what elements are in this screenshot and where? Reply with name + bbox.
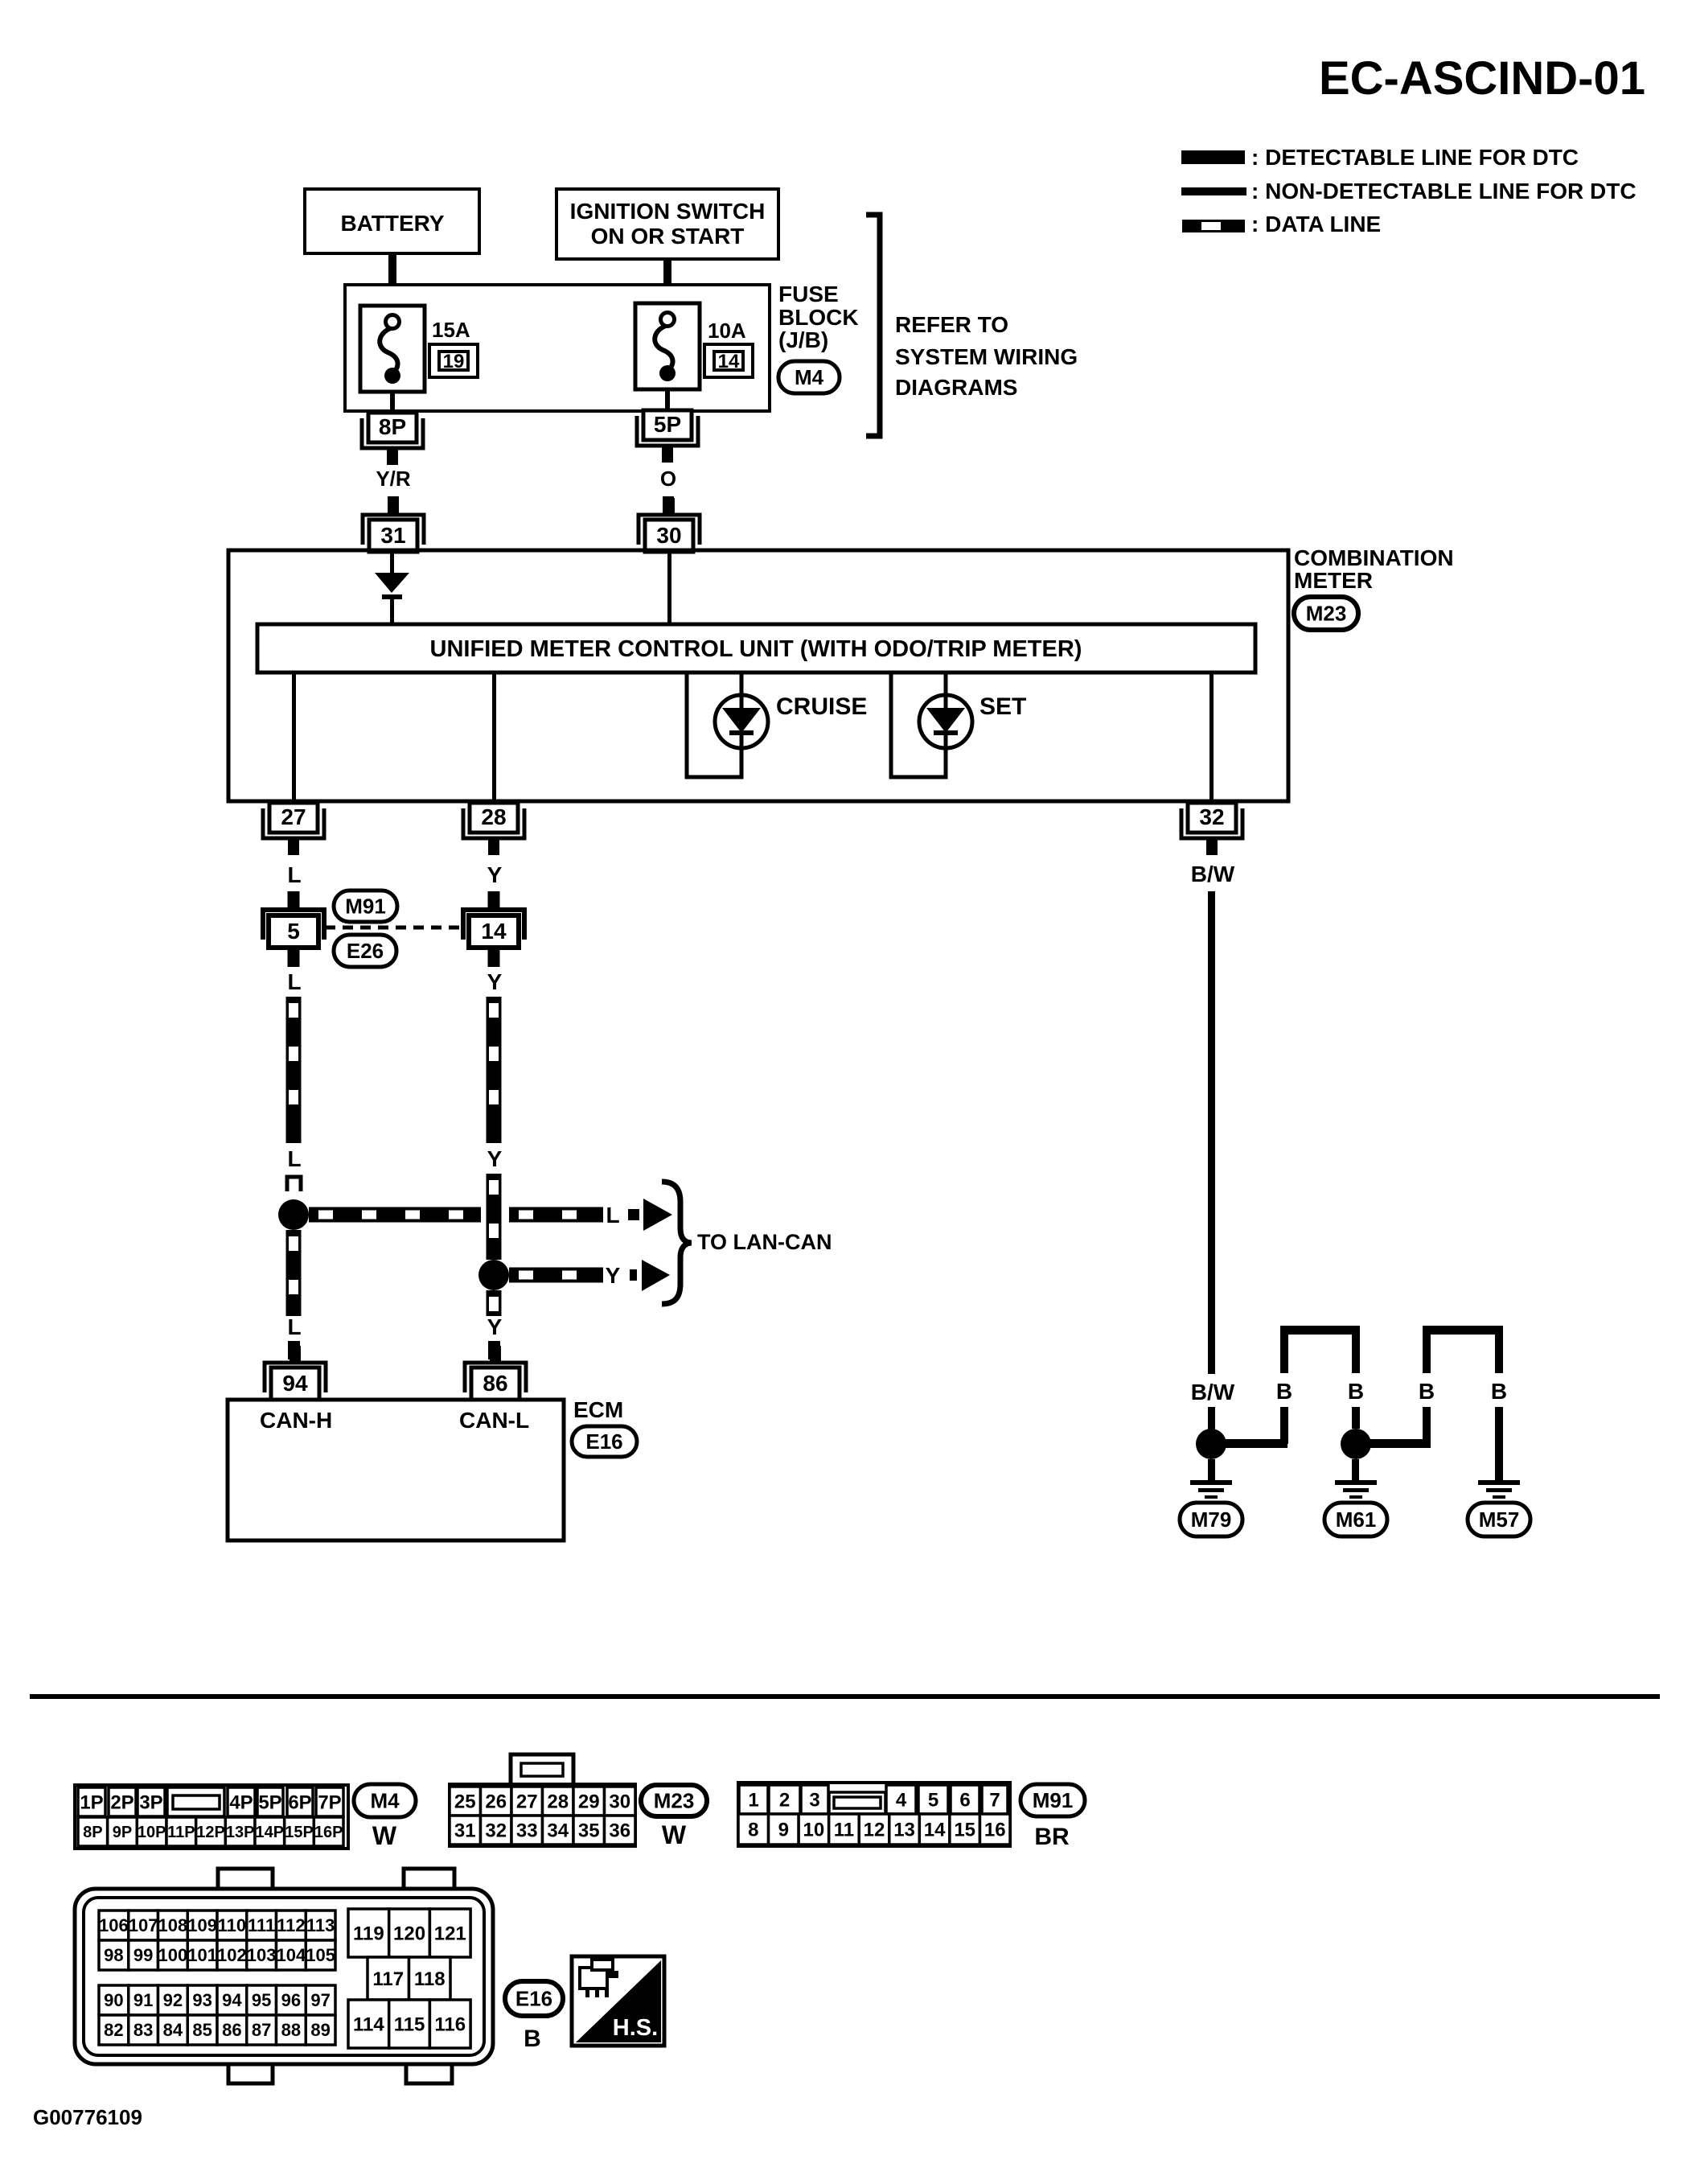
- svg-text:8P: 8P: [83, 1824, 102, 1841]
- svg-text:: NON-DETECTABLE LINE FOR DTC: : NON-DETECTABLE LINE FOR DTC: [1251, 179, 1637, 204]
- unified meter control unit box: [257, 624, 1255, 672]
- svg-text:W: W: [662, 1820, 687, 1849]
- svg-text:SYSTEM WIRING: SYSTEM WIRING: [895, 344, 1078, 369]
- svg-text:B: B: [524, 2026, 541, 2052]
- svg-text:CAN-H: CAN-H: [260, 1408, 332, 1433]
- junction node M61: [1341, 1429, 1371, 1459]
- data line Y to LAN-CAN: [509, 1268, 603, 1283]
- svg-text:BLOCK: BLOCK: [778, 305, 859, 330]
- svg-text:33: 33: [516, 1820, 538, 1841]
- svg-text:91: 91: [133, 1990, 153, 2010]
- svg-text:COMBINATION: COMBINATION: [1294, 545, 1454, 570]
- svg-text:115: 115: [394, 2013, 425, 2035]
- svg-text:2P: 2P: [110, 1791, 133, 1813]
- legend non-detectable line symbol: [1181, 187, 1246, 195]
- svg-text:Y: Y: [487, 1314, 503, 1339]
- svg-text:FUSE: FUSE: [778, 282, 839, 306]
- data line Y lower: [487, 1290, 502, 1316]
- connector oval E26: [334, 935, 396, 967]
- combination meter box: [228, 550, 1288, 801]
- svg-text:104: 104: [277, 1945, 306, 1965]
- svg-text:86: 86: [222, 2020, 241, 2040]
- LED SET: [919, 695, 972, 748]
- svg-text:101: 101: [187, 1945, 217, 1965]
- wire junction M61 to jumper: [1356, 1439, 1431, 1448]
- svg-text:92: 92: [163, 1990, 183, 2010]
- svg-text:105: 105: [306, 1945, 335, 1965]
- wire 5P to pin 30: [663, 496, 674, 513]
- svg-text:120: 120: [393, 1923, 425, 1944]
- svg-text:26: 26: [485, 1791, 507, 1812]
- svg-text:B/W: B/W: [1191, 1380, 1235, 1405]
- svg-text:UNIFIED METER CONTROL UNIT (WI: UNIFIED METER CONTROL UNIT (WITH ODO/TRI…: [430, 636, 1082, 662]
- svg-text:16: 16: [984, 1819, 1006, 1841]
- ground oval M79: [1180, 1503, 1242, 1536]
- connector oval M23 meter: [1294, 597, 1358, 630]
- svg-text:CRUISE: CRUISE: [776, 693, 867, 720]
- connector oval M23 view: [641, 1785, 707, 1816]
- svg-text:TO LAN-CAN: TO LAN-CAN: [697, 1230, 832, 1254]
- svg-text:15P: 15P: [285, 1824, 314, 1841]
- pin 27: [263, 808, 324, 838]
- data line L lower: [286, 1230, 302, 1316]
- wire M79 junction to ground: [1208, 1459, 1215, 1480]
- connector oval M91 view: [1021, 1784, 1085, 1816]
- svg-text:M91: M91: [1033, 1788, 1074, 1812]
- svg-text:98: 98: [104, 1945, 123, 1965]
- svg-text:14: 14: [924, 1819, 946, 1841]
- svg-text:2: 2: [779, 1789, 790, 1811]
- svg-text:107: 107: [129, 1915, 158, 1935]
- svg-text:95: 95: [252, 1990, 271, 2010]
- svg-text:1: 1: [748, 1789, 758, 1811]
- pin 28: [463, 808, 524, 838]
- svg-text:8: 8: [748, 1819, 758, 1841]
- svg-text:10P: 10P: [138, 1824, 166, 1841]
- ground M61: [1335, 1480, 1377, 1485]
- svg-text:16P: 16P: [314, 1824, 343, 1841]
- wire pin 31 to diode: [390, 552, 394, 574]
- svg-text:M23: M23: [654, 1789, 695, 1813]
- jumper wire 1: [1280, 1407, 1288, 1444]
- svg-text:L: L: [606, 1203, 619, 1228]
- svg-text:Y: Y: [487, 862, 503, 887]
- svg-text:100: 100: [158, 1945, 188, 1965]
- svg-text:L: L: [287, 1146, 301, 1171]
- jumper wire 2: [1423, 1407, 1431, 1444]
- connector 5P: [637, 416, 698, 446]
- svg-text:L: L: [287, 969, 301, 994]
- svg-text:5: 5: [928, 1789, 938, 1811]
- svg-text:94: 94: [222, 1990, 242, 2010]
- svg-text:34: 34: [547, 1820, 569, 1841]
- svg-text:H.S.: H.S.: [613, 2015, 658, 2041]
- svg-text:121: 121: [434, 1923, 466, 1944]
- svg-text:L: L: [287, 862, 301, 887]
- svg-text:86: 86: [483, 1371, 507, 1396]
- connector view M91: [738, 1783, 1010, 1846]
- wire UMCU to pin 27: [292, 672, 296, 801]
- svg-text:113: 113: [306, 1915, 335, 1935]
- wire fuse 19 to connector 8P: [390, 392, 395, 413]
- ignition switch on or start: [556, 189, 778, 259]
- svg-text:103: 103: [247, 1945, 277, 1965]
- legend data line symbol: [1182, 220, 1245, 232]
- svg-text:G00776109: G00776109: [33, 2105, 142, 2129]
- svg-text:85: 85: [192, 2020, 211, 2040]
- svg-text:3P: 3P: [139, 1791, 162, 1813]
- svg-text:11P: 11P: [167, 1824, 195, 1841]
- pin 14 connector M91/E26: [488, 891, 500, 908]
- pin 86: [490, 1346, 501, 1363]
- wire B/W from pin 32: [1208, 891, 1215, 1374]
- data line Y middle: [487, 1174, 502, 1260]
- svg-text:112: 112: [277, 1915, 306, 1935]
- svg-text:CAN-L: CAN-L: [459, 1408, 529, 1433]
- svg-text:109: 109: [187, 1915, 217, 1935]
- svg-text:M4: M4: [370, 1789, 400, 1813]
- wire UMCU to pin 28: [492, 672, 496, 801]
- svg-text:97: 97: [310, 1990, 330, 2010]
- wire battery to fuse block: [388, 253, 396, 316]
- pin 5 connector M91/E26: [288, 891, 300, 908]
- svg-text:: DATA LINE: : DATA LINE: [1251, 212, 1381, 236]
- wire Y to pin 86: [488, 1341, 500, 1359]
- connector view M23: [511, 1754, 573, 1785]
- junction node L: [278, 1199, 309, 1230]
- connector oval M91: [334, 890, 397, 922]
- svg-text:8P: 8P: [379, 414, 406, 439]
- svg-text:Y: Y: [487, 1146, 503, 1171]
- svg-text:BATTERY: BATTERY: [340, 211, 444, 236]
- svg-text:(J/B): (J/B): [778, 327, 828, 352]
- svg-text:29: 29: [578, 1791, 600, 1812]
- svg-text:27: 27: [281, 804, 306, 829]
- svg-text:114: 114: [353, 2013, 384, 2035]
- svg-text:REFER TO: REFER TO: [895, 312, 1008, 337]
- svg-text:102: 102: [217, 1945, 247, 1965]
- wire diode to unified meter control unit: [390, 599, 394, 624]
- svg-text:96: 96: [281, 1990, 301, 2010]
- svg-text:12P: 12P: [196, 1824, 225, 1841]
- svg-text:13P: 13P: [226, 1824, 255, 1841]
- svg-text:METER: METER: [1294, 568, 1373, 593]
- wire junction M79 to jumper: [1211, 1439, 1287, 1448]
- svg-text:O: O: [660, 467, 676, 491]
- svg-text:88: 88: [281, 2020, 301, 2040]
- svg-text:27: 27: [516, 1791, 538, 1812]
- svg-text:36: 36: [609, 1820, 630, 1841]
- connector oval M4 view: [354, 1784, 416, 1817]
- data line L to LAN-CAN: [309, 1207, 481, 1223]
- svg-text:11: 11: [834, 1819, 854, 1841]
- connector oval E16 ecm: [572, 1426, 637, 1457]
- fuse number 19: [429, 344, 478, 377]
- wire pin 30 to unified meter control unit: [667, 552, 671, 624]
- data line L junction cap: [287, 1177, 301, 1191]
- separator line: [30, 1694, 1660, 1699]
- svg-text:M23: M23: [1306, 602, 1347, 626]
- wire SET lamp loop: [891, 672, 946, 777]
- svg-text:116: 116: [434, 2013, 466, 2035]
- ECM box: [228, 1400, 564, 1540]
- junction node M79: [1196, 1429, 1226, 1459]
- svg-text:M57: M57: [1479, 1507, 1520, 1532]
- svg-text:ON OR START: ON OR START: [591, 224, 745, 249]
- svg-text:35: 35: [578, 1820, 600, 1841]
- svg-text:12: 12: [864, 1819, 885, 1841]
- svg-text:E16: E16: [585, 1429, 622, 1454]
- svg-text:89: 89: [310, 2020, 330, 2040]
- wire ignition switch to fuse block: [663, 259, 671, 315]
- svg-text:M61: M61: [1336, 1507, 1377, 1532]
- svg-text:B: B: [1348, 1379, 1364, 1404]
- svg-text:28: 28: [481, 804, 506, 829]
- svg-text:L: L: [287, 1314, 301, 1339]
- connector view M4: [75, 1785, 348, 1849]
- svg-text:94: 94: [282, 1371, 308, 1396]
- pin 32: [1181, 808, 1242, 838]
- svg-text:30: 30: [656, 523, 681, 548]
- svg-text:7: 7: [989, 1789, 1000, 1811]
- battery: [305, 189, 479, 253]
- ground M79: [1190, 1480, 1232, 1485]
- legend detectable line symbol: [1181, 150, 1245, 164]
- svg-text:99: 99: [133, 1945, 153, 1965]
- dashed connector mate line: [325, 926, 466, 930]
- svg-text:7P: 7P: [318, 1791, 341, 1813]
- svg-text:M79: M79: [1191, 1507, 1232, 1532]
- data line Y upper: [487, 997, 502, 1143]
- svg-text:32: 32: [1199, 804, 1224, 829]
- svg-text:31: 31: [454, 1820, 476, 1841]
- svg-text:119: 119: [353, 1923, 384, 1944]
- svg-text:M4: M4: [795, 365, 824, 389]
- svg-text:B: B: [1419, 1379, 1435, 1404]
- svg-text:W: W: [372, 1821, 397, 1850]
- svg-text:6: 6: [959, 1789, 970, 1811]
- arrow Y to LAN-CAN: [630, 1269, 637, 1281]
- svg-text:82: 82: [104, 2020, 123, 2040]
- svg-text:DIAGRAMS: DIAGRAMS: [895, 375, 1017, 400]
- wire L to pin 94: [288, 1341, 300, 1359]
- fuse block J/B outline: [345, 285, 770, 411]
- connector oval E16 view: [505, 1981, 563, 2016]
- svg-text:Y/R: Y/R: [376, 467, 411, 491]
- pin 30: [663, 498, 675, 515]
- svg-text:E16: E16: [515, 1987, 552, 2011]
- svg-text:25: 25: [454, 1791, 476, 1812]
- svg-text:15: 15: [954, 1819, 975, 1841]
- svg-text:31: 31: [380, 523, 405, 548]
- svg-text:87: 87: [252, 2020, 271, 2040]
- svg-text:19: 19: [443, 351, 465, 372]
- svg-text:3: 3: [809, 1789, 819, 1811]
- LED CRUISE: [715, 695, 768, 748]
- fuse 14 10A: [635, 303, 700, 389]
- svg-text:111: 111: [248, 1915, 275, 1935]
- wire M61 junction to ground: [1352, 1459, 1359, 1480]
- svg-text:SET: SET: [979, 693, 1026, 720]
- hs mark: [572, 1956, 664, 2046]
- svg-text:110: 110: [218, 1915, 247, 1935]
- svg-text:E26: E26: [347, 939, 384, 963]
- svg-text:1P: 1P: [80, 1791, 103, 1813]
- svg-text:106: 106: [99, 1915, 129, 1935]
- svg-text:B/W: B/W: [1191, 862, 1235, 886]
- svg-text:14: 14: [718, 351, 740, 372]
- svg-text:117: 117: [372, 1968, 404, 1990]
- data line L upper: [286, 997, 302, 1143]
- ground oval M61: [1324, 1503, 1387, 1536]
- svg-text:9P: 9P: [113, 1824, 132, 1841]
- svg-text:: DETECTABLE LINE FOR DTC: : DETECTABLE LINE FOR DTC: [1251, 145, 1579, 170]
- connector view E16: [218, 1869, 273, 1893]
- svg-text:ECM: ECM: [573, 1397, 623, 1422]
- svg-text:13: 13: [893, 1819, 915, 1841]
- bracket refer to system wiring diagrams: [866, 215, 880, 436]
- svg-text:B: B: [1276, 1379, 1292, 1404]
- diode D1: [375, 573, 409, 593]
- svg-text:90: 90: [104, 1990, 123, 2010]
- svg-text:118: 118: [414, 1968, 446, 1990]
- connector oval M4: [778, 361, 840, 393]
- svg-text:10: 10: [803, 1819, 825, 1841]
- svg-text:83: 83: [133, 2020, 153, 2040]
- svg-text:4: 4: [896, 1789, 907, 1811]
- arrow L to LAN-CAN: [628, 1209, 639, 1220]
- fuse number 14: [704, 344, 753, 377]
- svg-text:14P: 14P: [256, 1824, 285, 1841]
- svg-text:IGNITION SWITCH: IGNITION SWITCH: [570, 199, 766, 224]
- svg-text:93: 93: [192, 1990, 211, 2010]
- ground oval M57: [1468, 1503, 1530, 1536]
- connector 8P: [362, 418, 423, 448]
- svg-text:5P: 5P: [258, 1791, 281, 1813]
- junction node Y: [478, 1260, 509, 1290]
- svg-text:30: 30: [609, 1791, 630, 1812]
- svg-text:10A: 10A: [708, 319, 746, 343]
- svg-text:108: 108: [158, 1915, 188, 1935]
- svg-text:M91: M91: [345, 895, 386, 919]
- svg-text:B: B: [1491, 1379, 1507, 1404]
- svg-text:32: 32: [485, 1820, 507, 1841]
- wire 8P to pin 31: [388, 496, 399, 513]
- svg-text:84: 84: [163, 2020, 183, 2040]
- svg-text:6P: 6P: [288, 1791, 311, 1813]
- ground M57: [1478, 1480, 1520, 1485]
- wire CRUISE lamp loop: [687, 672, 741, 777]
- wire UMCU to pin 32: [1209, 672, 1214, 801]
- svg-text:5P: 5P: [654, 412, 681, 437]
- svg-text:5: 5: [287, 919, 300, 944]
- svg-text:15A: 15A: [432, 318, 470, 342]
- svg-text:28: 28: [547, 1791, 569, 1812]
- brace TO LAN-CAN: [662, 1182, 692, 1304]
- pin 31: [388, 498, 399, 515]
- svg-text:4P: 4P: [229, 1791, 253, 1813]
- wire fuse 14 to connector 5P: [665, 389, 670, 411]
- pin 94: [290, 1346, 301, 1363]
- svg-text:Y: Y: [487, 969, 503, 994]
- svg-text:14: 14: [481, 919, 507, 944]
- svg-text:9: 9: [778, 1819, 789, 1841]
- svg-text:Y: Y: [606, 1263, 621, 1288]
- svg-text:BR: BR: [1034, 1824, 1070, 1850]
- fuse 19 15A: [360, 306, 425, 392]
- wire B/W to junction M79: [1208, 1407, 1215, 1431]
- svg-text:EC-ASCIND-01: EC-ASCIND-01: [1319, 52, 1645, 105]
